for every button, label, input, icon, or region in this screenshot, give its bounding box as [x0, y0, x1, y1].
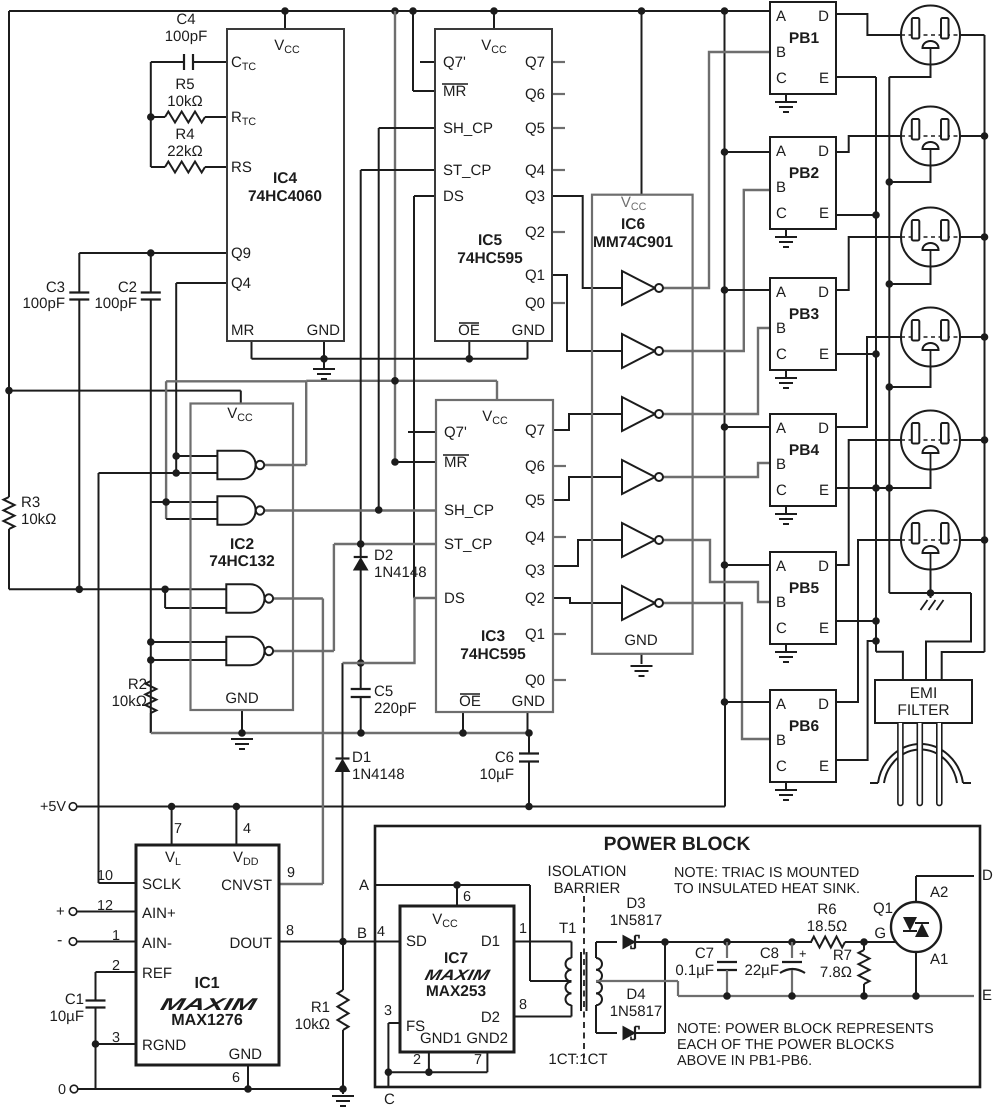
svg-text:1N4148: 1N4148: [374, 564, 427, 581]
svg-text:Q0: Q0: [525, 295, 545, 312]
svg-text:1CT:1CT: 1CT:1CT: [548, 1051, 607, 1068]
svg-text:NOTE: TRIAC IS MOUNTED: NOTE: TRIAC IS MOUNTED: [674, 865, 859, 881]
svg-text:+5V: +5V: [40, 799, 66, 815]
svg-text:D3: D3: [626, 895, 645, 912]
svg-text:22µF: 22µF: [745, 962, 780, 979]
svg-text:GND: GND: [229, 1046, 263, 1063]
svg-text:C: C: [776, 758, 787, 775]
svg-text:9: 9: [287, 865, 295, 881]
svg-text:18.5Ω: 18.5Ω: [807, 918, 847, 935]
svg-text:EACH OF THE POWER BLOCKS: EACH OF THE POWER BLOCKS: [677, 1037, 894, 1053]
svg-text:BARRIER: BARRIER: [554, 880, 621, 897]
svg-text:NOTE: POWER BLOCK REPRESENTS: NOTE: POWER BLOCK REPRESENTS: [677, 1021, 934, 1037]
svg-text:RS: RS: [231, 159, 252, 176]
svg-text:4: 4: [243, 821, 251, 837]
svg-text:R7: R7: [833, 947, 852, 964]
svg-text:SD: SD: [406, 933, 427, 950]
svg-text:E: E: [819, 758, 829, 775]
svg-text:SH_CP: SH_CP: [444, 502, 494, 519]
svg-text:6: 6: [463, 889, 471, 905]
svg-text:A: A: [776, 8, 786, 25]
svg-text:G: G: [874, 925, 886, 942]
svg-text:A: A: [776, 696, 786, 713]
svg-text:100pF: 100pF: [165, 28, 208, 45]
svg-text:1N5817: 1N5817: [610, 912, 663, 929]
svg-text:Q2: Q2: [525, 590, 545, 607]
svg-text:100pF: 100pF: [22, 295, 65, 312]
svg-text:10: 10: [97, 868, 113, 884]
svg-text:DS: DS: [443, 188, 464, 205]
svg-text:R6: R6: [817, 901, 836, 918]
svg-text:B: B: [776, 456, 786, 473]
svg-text:R5: R5: [175, 76, 194, 93]
svg-text:10kΩ: 10kΩ: [21, 511, 56, 528]
svg-text:POWER BLOCK: POWER BLOCK: [604, 834, 751, 855]
svg-text:OE: OE: [459, 693, 481, 710]
svg-text:B: B: [776, 179, 786, 196]
svg-text:R2: R2: [128, 676, 147, 693]
svg-text:C: C: [776, 620, 787, 637]
svg-text:A1: A1: [930, 951, 948, 968]
svg-text:GND: GND: [512, 322, 546, 339]
svg-text:IC5: IC5: [478, 232, 503, 249]
svg-text:6: 6: [232, 1070, 240, 1086]
svg-text:10µF: 10µF: [480, 766, 515, 783]
svg-text:D4: D4: [626, 986, 645, 1003]
svg-text:D: D: [818, 558, 829, 575]
svg-text:MAX253: MAX253: [426, 983, 487, 1000]
svg-text:12: 12: [97, 898, 113, 914]
svg-text:C7: C7: [695, 945, 714, 962]
svg-text:A: A: [776, 284, 786, 301]
svg-text:3: 3: [384, 1003, 392, 1019]
svg-text:MAX1276: MAX1276: [171, 1011, 243, 1029]
svg-text:1N4148: 1N4148: [352, 766, 405, 783]
svg-text:DS: DS: [444, 590, 465, 607]
svg-text:1N5817: 1N5817: [610, 1003, 663, 1020]
svg-text:Q9: Q9: [231, 245, 251, 262]
svg-text:Q0: Q0: [525, 672, 545, 689]
svg-text:ABOVE IN PB1-PB6.: ABOVE IN PB1-PB6.: [677, 1053, 812, 1069]
svg-text:GND: GND: [512, 693, 546, 710]
svg-text:MR: MR: [444, 454, 467, 471]
svg-text:-: -: [57, 931, 62, 949]
svg-text:IC7: IC7: [444, 950, 468, 967]
svg-text:A: A: [359, 877, 369, 894]
svg-text:PB1: PB1: [789, 30, 820, 47]
svg-text:C: C: [776, 205, 787, 222]
svg-text:Q7: Q7: [525, 54, 545, 71]
svg-text:SH_CP: SH_CP: [443, 120, 493, 137]
svg-text:Q5: Q5: [525, 492, 545, 509]
svg-text:T1: T1: [559, 920, 577, 937]
svg-text:IC2: IC2: [230, 536, 254, 553]
svg-text:Q7: Q7: [525, 422, 545, 439]
svg-text:C1: C1: [65, 991, 84, 1008]
svg-text:+: +: [799, 946, 806, 961]
svg-text:E: E: [819, 482, 829, 499]
svg-text:IC1: IC1: [194, 974, 219, 992]
svg-text:IC3: IC3: [481, 628, 506, 645]
svg-text:GND2: GND2: [466, 1030, 508, 1047]
svg-text:GND: GND: [225, 690, 259, 707]
svg-text:REF: REF: [142, 965, 172, 982]
svg-text:E: E: [819, 70, 829, 87]
svg-text:IC6: IC6: [621, 216, 646, 233]
svg-text:B: B: [776, 594, 786, 611]
svg-text:100pF: 100pF: [94, 295, 137, 312]
svg-text:E: E: [819, 620, 829, 637]
svg-text:Q1: Q1: [525, 626, 545, 643]
svg-text:C4: C4: [176, 11, 195, 28]
svg-text:D2: D2: [481, 1009, 500, 1026]
svg-text:74HC595: 74HC595: [457, 250, 523, 267]
svg-text:Q1: Q1: [873, 900, 893, 917]
svg-text:B: B: [776, 320, 786, 337]
svg-text:FILTER: FILTER: [897, 702, 949, 719]
svg-text:A: A: [776, 143, 786, 160]
svg-text:10µF: 10µF: [50, 1008, 85, 1025]
svg-text:10kΩ: 10kΩ: [295, 1016, 330, 1033]
svg-text:B: B: [776, 44, 786, 61]
svg-text:1: 1: [112, 928, 120, 944]
svg-text:E: E: [819, 205, 829, 222]
svg-text:C: C: [776, 482, 787, 499]
svg-text:Q6: Q6: [525, 458, 545, 475]
svg-text:D: D: [818, 143, 829, 160]
svg-text:CNVST: CNVST: [221, 877, 272, 894]
svg-text:GND: GND: [307, 322, 341, 339]
svg-text:PB2: PB2: [789, 165, 819, 182]
svg-text:MAXIM: MAXIM: [423, 967, 492, 984]
svg-text:7: 7: [174, 821, 182, 837]
svg-text:C: C: [776, 346, 787, 363]
svg-text:1: 1: [519, 921, 527, 937]
svg-text:R3: R3: [21, 494, 40, 511]
svg-text:GND: GND: [624, 632, 658, 649]
svg-text:Q7': Q7': [444, 424, 467, 441]
svg-text:TO INSULATED HEAT SINK.: TO INSULATED HEAT SINK.: [674, 881, 860, 897]
svg-text:MM74C901: MM74C901: [593, 234, 673, 251]
svg-text:C: C: [776, 70, 787, 87]
svg-text:E: E: [819, 346, 829, 363]
svg-text:A2: A2: [930, 884, 948, 901]
svg-text:C8: C8: [760, 945, 779, 962]
svg-text:D: D: [818, 696, 829, 713]
svg-text:Q7': Q7': [443, 54, 466, 71]
svg-text:74HC4060: 74HC4060: [248, 188, 322, 205]
svg-text:EMI: EMI: [910, 685, 938, 702]
svg-text:A: A: [776, 558, 786, 575]
svg-text:Q2: Q2: [525, 224, 545, 241]
svg-text:8: 8: [286, 923, 294, 939]
svg-text:RGND: RGND: [142, 1037, 186, 1054]
svg-text:+: +: [56, 903, 65, 920]
svg-text:MR: MR: [443, 83, 466, 100]
svg-text:ST_CP: ST_CP: [444, 536, 492, 553]
svg-text:C6: C6: [495, 749, 514, 766]
svg-text:D: D: [982, 867, 993, 884]
svg-text:PB6: PB6: [789, 718, 820, 735]
svg-text:7.8Ω: 7.8Ω: [820, 964, 852, 981]
svg-text:AIN+: AIN+: [142, 905, 176, 922]
svg-text:4: 4: [377, 924, 385, 940]
svg-text:R4: R4: [175, 126, 194, 143]
svg-text:PB4: PB4: [789, 442, 820, 459]
svg-text:Q6: Q6: [525, 86, 545, 103]
svg-text:22kΩ: 22kΩ: [167, 143, 202, 160]
svg-text:Q1: Q1: [525, 267, 545, 284]
svg-text:OE: OE: [458, 322, 480, 339]
svg-text:GND1: GND1: [420, 1030, 462, 1047]
svg-text:B: B: [776, 732, 786, 749]
svg-text:Q4: Q4: [231, 275, 251, 292]
svg-text:7: 7: [474, 1052, 482, 1068]
svg-text:0: 0: [58, 1082, 66, 1098]
svg-text:SCLK: SCLK: [142, 876, 181, 893]
svg-text:PB5: PB5: [789, 580, 820, 597]
svg-text:ST_CP: ST_CP: [443, 162, 491, 179]
svg-text:10kΩ: 10kΩ: [167, 93, 202, 110]
svg-text:D: D: [818, 420, 829, 437]
svg-text:D: D: [818, 284, 829, 301]
svg-text:AIN-: AIN-: [142, 935, 172, 952]
svg-text:Q4: Q4: [525, 162, 545, 179]
svg-text:IC4: IC4: [273, 170, 298, 187]
svg-text:D1: D1: [481, 933, 500, 950]
svg-text:C2: C2: [118, 279, 137, 296]
svg-text:Q5: Q5: [525, 120, 545, 137]
svg-text:R1: R1: [311, 999, 330, 1016]
svg-text:MR: MR: [231, 322, 254, 339]
svg-text:2: 2: [413, 1052, 421, 1068]
svg-text:DOUT: DOUT: [230, 935, 273, 952]
svg-text:220pF: 220pF: [374, 700, 417, 717]
svg-text:Q3: Q3: [525, 562, 545, 579]
svg-text:Q4: Q4: [525, 529, 545, 546]
svg-text:10kΩ: 10kΩ: [112, 693, 147, 710]
svg-text:D: D: [818, 8, 829, 25]
svg-text:C3: C3: [46, 279, 65, 296]
svg-text:E: E: [982, 987, 992, 1004]
svg-text:ISOLATION: ISOLATION: [548, 863, 627, 880]
svg-text:B: B: [357, 925, 367, 942]
svg-text:74HC595: 74HC595: [460, 646, 526, 663]
svg-text:0.1µF: 0.1µF: [675, 962, 714, 979]
svg-text:D2: D2: [374, 547, 393, 564]
svg-text:74HC132: 74HC132: [209, 553, 275, 570]
svg-text:D1: D1: [352, 749, 371, 766]
svg-text:PB3: PB3: [789, 306, 820, 323]
svg-text:C: C: [384, 1091, 395, 1108]
svg-text:8: 8: [519, 997, 527, 1013]
svg-text:Q3: Q3: [525, 188, 545, 205]
svg-text:C5: C5: [374, 683, 393, 700]
svg-text:A: A: [776, 420, 786, 437]
